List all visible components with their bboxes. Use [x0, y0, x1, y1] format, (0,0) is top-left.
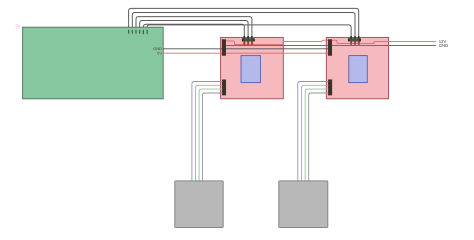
chip U2	[349, 56, 368, 83]
wire M2 gray	[309, 93, 329, 181]
top connector J2 (driver 2)	[348, 36, 361, 45]
svg-text:5V: 5V	[157, 51, 162, 56]
signal wires controller to drivers	[129, 8, 359, 40]
svg-text:GND: GND	[439, 43, 448, 48]
driver board 1 (pink)	[221, 37, 284, 98]
motor 2 wires	[298, 82, 329, 181]
controller pin labels	[128, 30, 148, 34]
GND wire from controller (dark gray)	[163, 48, 330, 50]
wire D9 run4	[140, 21, 248, 41]
wire D5 run2	[132, 13, 355, 41]
wire M1 gray	[202, 93, 222, 181]
left motor connector (driver 1)	[222, 80, 225, 95]
wire M1 blue	[192, 82, 223, 181]
motor 2 (gray)	[279, 181, 328, 228]
left power connector (driver 2)	[328, 40, 331, 56]
left motor connector (driver 2)	[328, 80, 331, 95]
5V wire from controller (red)	[163, 52, 330, 54]
wire M1 pink	[196, 85, 223, 181]
controller board (green)	[23, 27, 164, 99]
wire M1 green	[199, 89, 222, 181]
wire D10 run5	[143, 24, 244, 40]
wire D6 run3	[136, 17, 252, 40]
motor 1 wires	[192, 82, 223, 181]
chip U1	[241, 56, 261, 83]
wire D11 run6	[147, 25, 351, 40]
GND wire right (gray)	[226, 45, 436, 47]
wire M2 green	[305, 89, 328, 181]
top connector J1 (driver 1)	[242, 36, 255, 45]
12V wire (red)	[226, 40, 436, 44]
left power connector (driver 1)	[222, 40, 225, 56]
driver board 2 (pink)	[326, 37, 388, 98]
wire D3 run1	[129, 8, 359, 40]
motor 1 (gray)	[175, 181, 223, 228]
smudge artifact top-left	[16, 24, 21, 29]
wire M2 blue	[298, 82, 329, 181]
wire M2 pink	[302, 85, 329, 181]
